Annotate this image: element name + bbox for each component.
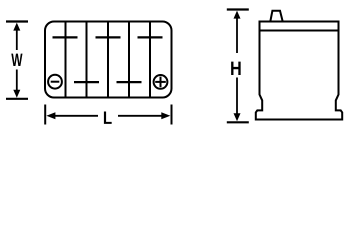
- vent tick upper 1: [53, 36, 78, 38]
- negative terminal circle: [48, 75, 62, 89]
- cell divider 5: [149, 22, 151, 98]
- W dimension top cap: [6, 20, 28, 22]
- side view terminal post: [270, 11, 282, 22]
- H dimension lower arrowhead: [234, 113, 241, 121]
- label L: [104, 112, 112, 124]
- positive terminal circle: [154, 75, 168, 89]
- L dimension right arrowhead: [161, 112, 170, 119]
- vent tick upper 2: [96, 36, 121, 38]
- positive terminal plus sign horizontal: [155, 81, 166, 83]
- vent tick lower 2: [117, 81, 142, 83]
- vent tick upper 3: [138, 36, 163, 38]
- W dimension upper arrowhead: [13, 23, 20, 31]
- L dimension right arrow shaft: [118, 115, 164, 117]
- H dimension upper arrow shaft: [236, 17, 238, 53]
- cell divider 2: [86, 22, 88, 98]
- H dimension top cap: [227, 8, 249, 10]
- L dimension right witness line: [171, 105, 173, 125]
- L dimension left arrow shaft: [53, 115, 98, 117]
- W dimension upper arrow shaft: [16, 29, 18, 50]
- negative terminal minus sign: [51, 81, 60, 83]
- battery side view outline with feet: [256, 22, 342, 120]
- cell divider 1: [65, 22, 67, 98]
- cell divider 4: [128, 22, 130, 98]
- vent tick lower 1: [74, 81, 99, 83]
- W dimension lower arrow shaft: [16, 70, 18, 92]
- H dimension lower arrow shaft: [236, 78, 238, 116]
- battery top view outline: [45, 22, 172, 98]
- label H: [231, 62, 241, 75]
- label W: [11, 54, 22, 66]
- L dimension left witness line: [44, 105, 46, 125]
- W dimension bottom cap: [6, 98, 28, 100]
- H dimension bottom cap: [227, 121, 249, 123]
- side view lid line: [260, 30, 339, 32]
- cell divider 3: [107, 22, 109, 98]
- W dimension lower arrowhead: [13, 90, 20, 98]
- positive terminal plus sign vertical: [160, 77, 162, 88]
- H dimension upper arrowhead: [234, 11, 241, 19]
- L dimension left arrowhead: [46, 112, 55, 119]
